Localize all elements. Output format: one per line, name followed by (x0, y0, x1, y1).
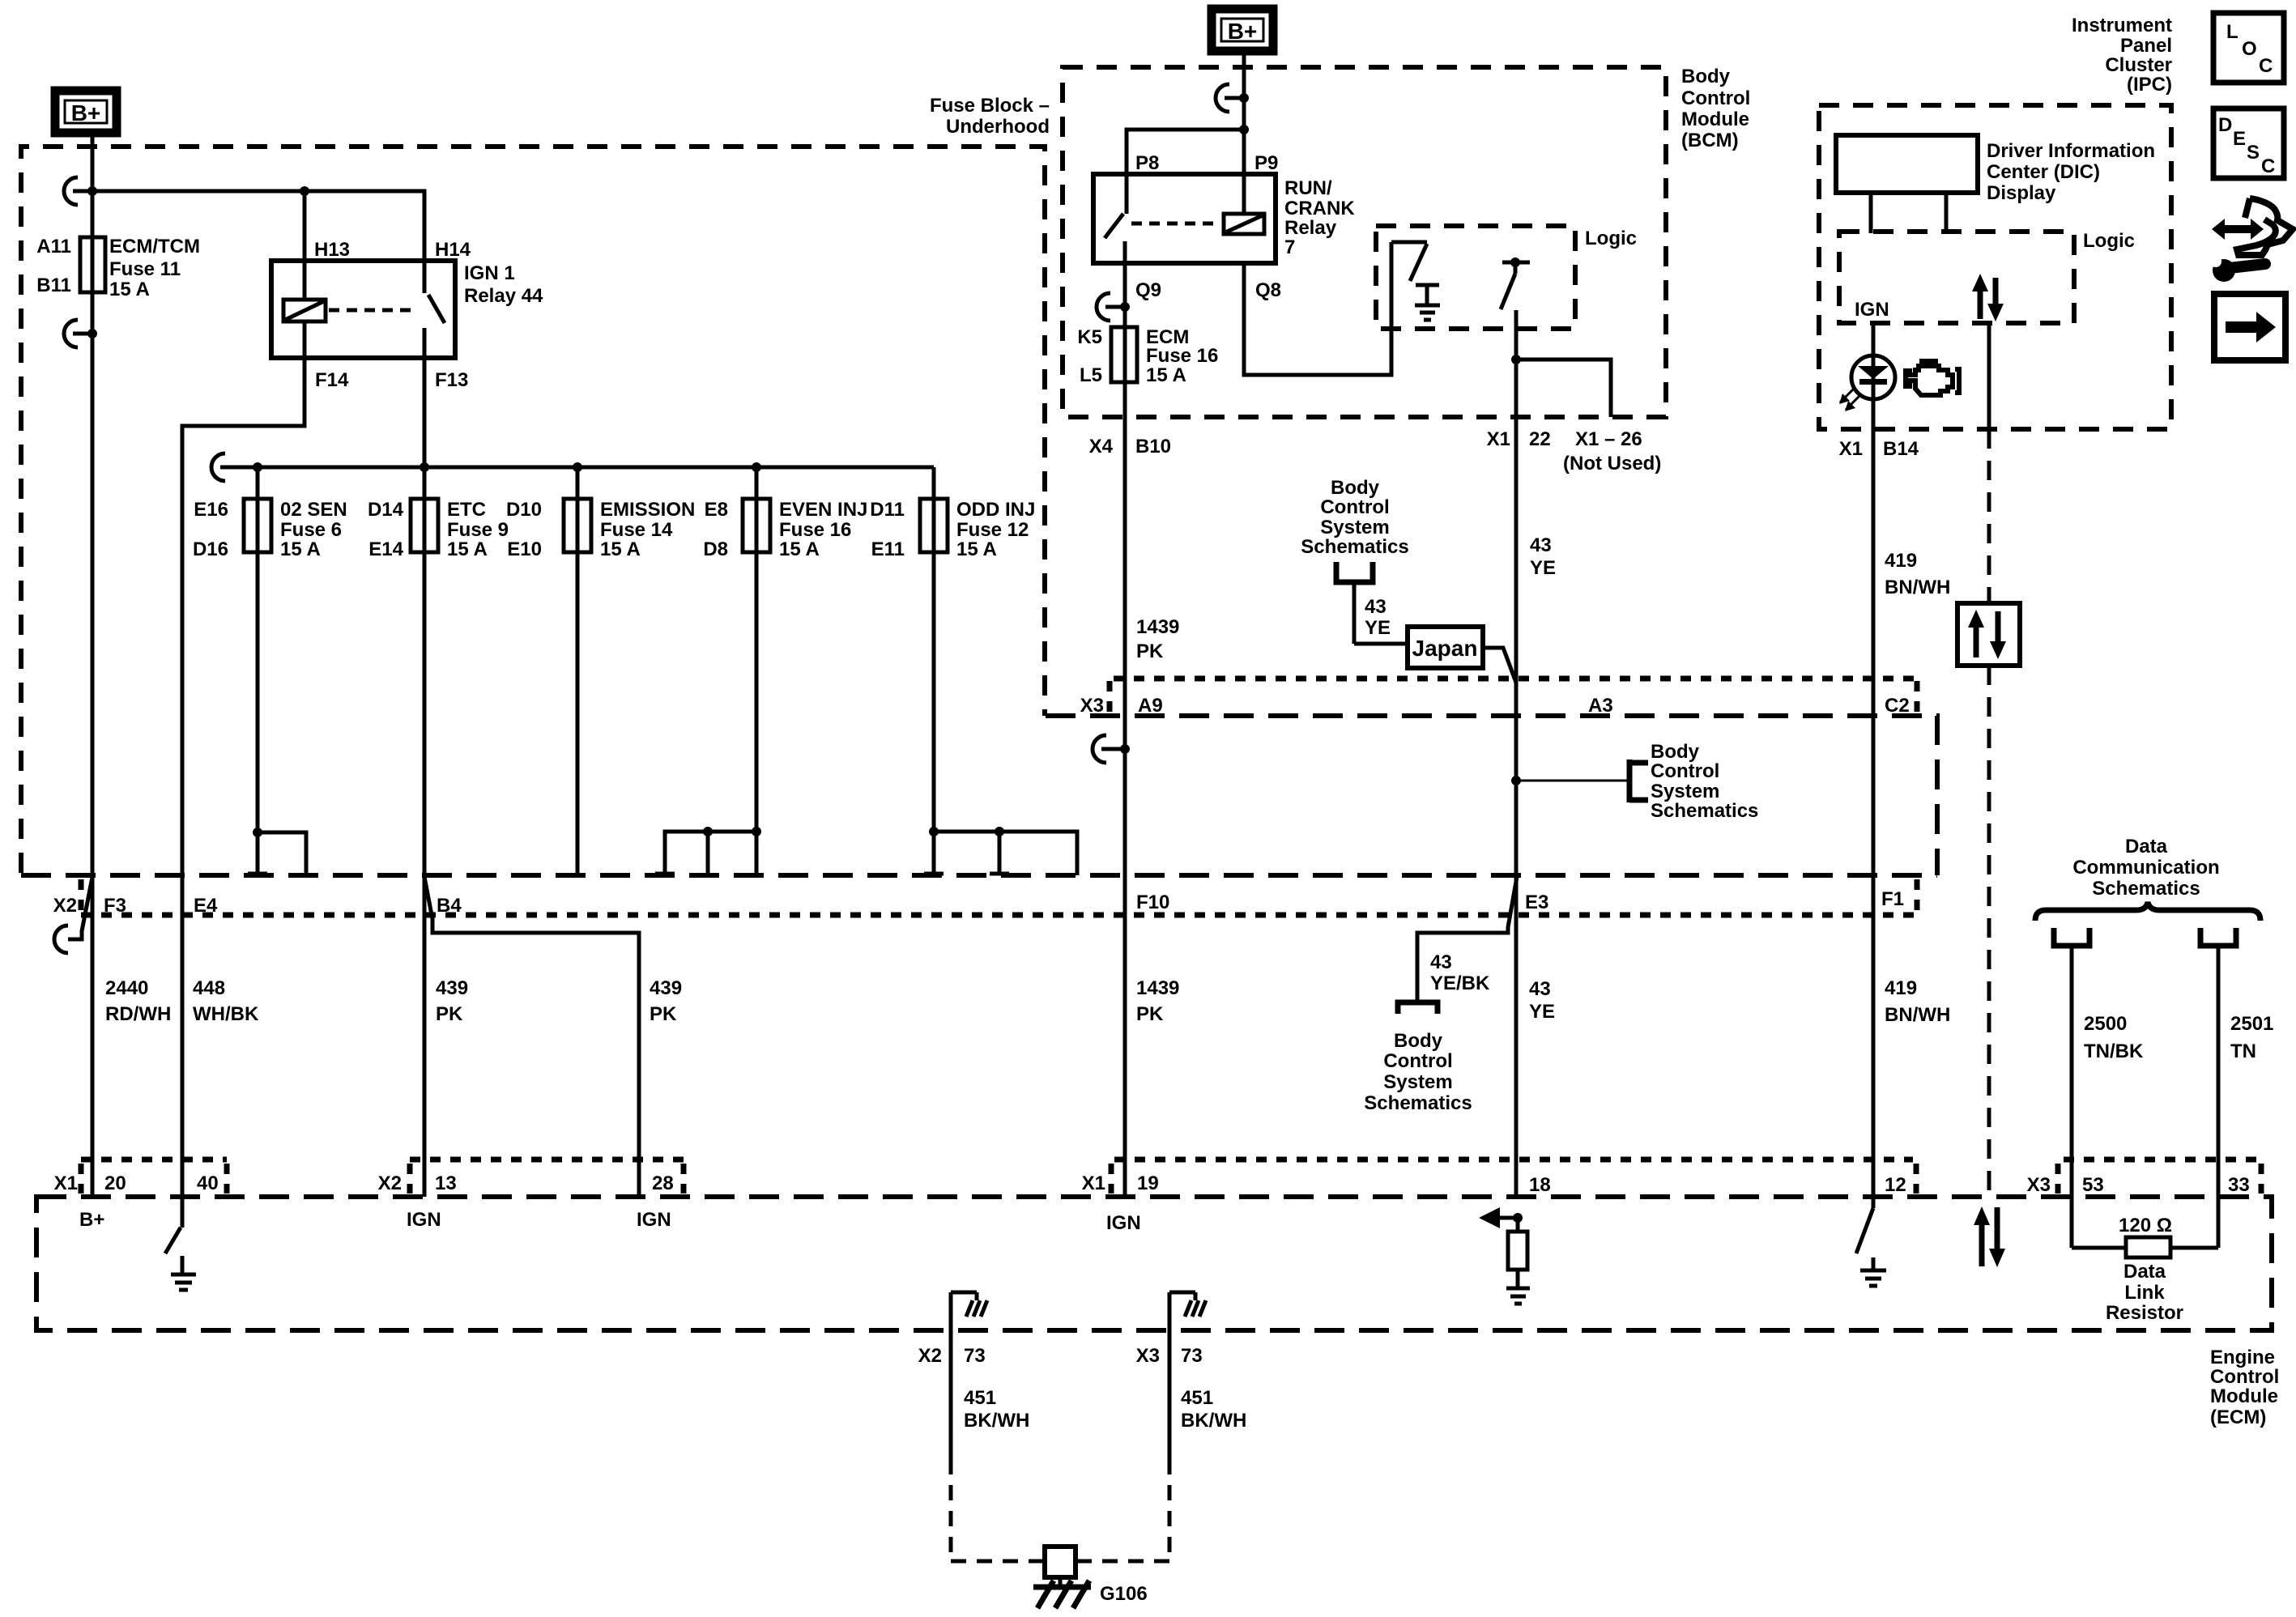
svg-text:PK: PK (436, 1003, 463, 1025)
hook symbol at Q9 junction (1097, 293, 1130, 321)
svg-text:Q9: Q9 (1135, 279, 1161, 301)
svg-text:E10: E10 (507, 538, 542, 560)
svg-text:F14: F14 (315, 369, 349, 391)
label body control system schematics (upper) (1301, 477, 1408, 558)
wire connector row B dashed (fuse block bottom) (21, 873, 1937, 878)
svg-text:F13: F13 (435, 369, 468, 391)
svg-text:120 Ω: 120 Ω (2119, 1215, 2172, 1236)
wire connector row A dotted (BCM X3 face) (1110, 679, 1917, 714)
svg-text:RD/WH: RD/WH (105, 1003, 171, 1025)
BCM dashed box (1063, 67, 1666, 417)
svg-text:Resistor: Resistor (2106, 1302, 2183, 1324)
label fuse 11 pins A11 B11 (36, 236, 71, 296)
svg-text:22: 22 (1529, 428, 1551, 450)
svg-text:B+: B+ (71, 100, 101, 126)
svg-text:Fuse 16: Fuse 16 (1146, 345, 1218, 367)
svg-text:X1 – 26: X1 – 26 (1575, 428, 1642, 450)
node B+ junction (87, 186, 97, 196)
label row B pins X2 F3 E4 B4 F10 E3 F1 (53, 888, 1904, 917)
wire IGN feed 419 to ECM pin 12 (1872, 323, 1876, 1197)
ECM pin 12 internal switch (1856, 1197, 1873, 1269)
svg-text:02 SEN: 02 SEN (280, 499, 347, 521)
svg-text:13: 13 (435, 1172, 457, 1194)
svg-text:Fuse Block –: Fuse Block – (930, 95, 1050, 117)
svg-text:Module: Module (2210, 1385, 2278, 1407)
svg-text:X4: X4 (1089, 436, 1114, 457)
label fuse 14 (506, 499, 695, 560)
label fuse 11 value (109, 236, 200, 300)
label Driver Information Center (DIC) Display (1987, 140, 2155, 204)
wire B+ feed vertical (to ECM pin 20) (91, 134, 95, 1197)
LED indicator (MIL) (1851, 355, 1895, 399)
svg-text:F10: F10 (1136, 891, 1169, 913)
hook symbol at bus start (211, 453, 240, 481)
label Body Control Module (BCM) (1681, 66, 1750, 151)
svg-text:D10: D10 (506, 499, 542, 521)
svg-text:Fuse 6: Fuse 6 (280, 519, 342, 541)
IPC dashed box (1819, 105, 2171, 429)
svg-text:43: 43 (1530, 534, 1552, 556)
icon box LOC (2213, 13, 2284, 83)
label circuit 2500 TN/BK (2084, 1013, 2144, 1062)
svg-text:YE: YE (1365, 617, 1391, 639)
svg-text:Control: Control (1681, 87, 1750, 109)
label fuse 16 (703, 499, 867, 560)
bracket body control schematics (right) (1629, 760, 1648, 802)
svg-text:System: System (1383, 1071, 1452, 1093)
node bus junctions (253, 462, 761, 472)
wire connector row B dotted (81, 879, 1917, 915)
svg-text:C: C (2259, 55, 2273, 77)
label data communication schematics (2072, 836, 2219, 900)
svg-text:15 A: 15 A (280, 538, 321, 560)
wire E3 takeoff 43 YE/BK (1417, 877, 1517, 1001)
svg-text:Body: Body (1331, 477, 1380, 499)
svg-text:Control: Control (2210, 1366, 2279, 1388)
wire fuse drops from bus (0, 0, 1, 1)
svg-text:15 A: 15 A (109, 279, 150, 300)
svg-text:419: 419 (1885, 977, 1917, 999)
svg-text:X1: X1 (1487, 428, 1510, 450)
svg-text:D14: D14 (368, 499, 404, 521)
svg-text:E8: E8 (705, 499, 728, 521)
svg-text:E16: E16 (194, 499, 228, 521)
icon diagnostic arrows and wrench (2210, 198, 2293, 282)
svg-text:Display: Display (1987, 182, 2056, 204)
wire splice to ground (1059, 1577, 1063, 1587)
svg-text:(BCM): (BCM) (1681, 130, 1739, 151)
svg-text:Body: Body (1681, 66, 1731, 87)
label G106 (1100, 1583, 1148, 1605)
svg-text:Body: Body (1394, 1030, 1443, 1052)
ground G106 symbol (1033, 1581, 1091, 1608)
label circuit 451 BK/WH (left) (964, 1387, 1029, 1432)
engine icon (1906, 361, 1959, 395)
wire fuse 14 output (576, 467, 580, 875)
relay K44 coil-switch link (329, 309, 417, 313)
svg-text:40: 40 (197, 1172, 219, 1194)
serial data arrows (IPC logic) (1972, 274, 2004, 321)
node H13 branch (300, 186, 309, 196)
svg-text:439: 439 (650, 977, 682, 999)
node A3 splice to body control schematics (1511, 776, 1521, 785)
relay 7 coil (1224, 214, 1264, 234)
svg-text:Fuse 12: Fuse 12 (956, 519, 1029, 541)
svg-text:Logic: Logic (2083, 230, 2135, 252)
wire F13 to fuse bus (423, 358, 427, 467)
IPC logic dashed box (1839, 232, 2074, 323)
svg-text:Relay 44: Relay 44 (464, 285, 543, 307)
label circuit 43 YE (Japan branch) (1365, 596, 1391, 639)
svg-text:X1: X1 (1082, 1172, 1105, 1194)
svg-text:53: 53 (2082, 1174, 2104, 1196)
svg-text:73: 73 (1181, 1345, 1203, 1367)
wire ground pin X2-73 (949, 1292, 953, 1459)
svg-text:TN/BK: TN/BK (2084, 1040, 2144, 1062)
svg-text:Body: Body (1651, 741, 1700, 763)
svg-text:ECM/TCM: ECM/TCM (109, 236, 200, 257)
fuse F14 EMISSION (564, 499, 591, 552)
wire fuse 6 stub to connector (258, 832, 306, 875)
svg-text:RUN/: RUN/ (1284, 177, 1332, 199)
wire fuse 16 output (755, 467, 759, 875)
icon box arrow (2214, 294, 2285, 360)
wire ground harness dashed to splice (951, 1459, 1169, 1561)
wire P8 branch (1127, 130, 1244, 174)
label relay 7 pins (1135, 152, 1281, 301)
label circuit 1439 PK upper (1136, 616, 1179, 662)
svg-text:28: 28 (652, 1172, 674, 1194)
svg-text:7: 7 (1284, 236, 1295, 258)
svg-text:D16: D16 (193, 538, 228, 560)
svg-text:B14: B14 (1883, 438, 1919, 460)
node fuse 12 branch (929, 827, 1004, 836)
icon box DESC (2213, 109, 2284, 178)
svg-text:(ECM): (ECM) (2210, 1406, 2266, 1428)
label circuit 451 BK/WH (right) (1181, 1387, 1246, 1432)
svg-text:H13: H13 (314, 239, 350, 261)
label circuit 2501 TN (2230, 1013, 2273, 1062)
svg-text:1439: 1439 (1136, 977, 1179, 999)
ECM internal ground (X2-73) (951, 1292, 987, 1317)
svg-text:BK/WH: BK/WH (1181, 1410, 1246, 1432)
label connector X1 B14 (1839, 438, 1919, 460)
ECM pin 18 internal arrow (1479, 1207, 1523, 1228)
brace data communication (2035, 902, 2260, 921)
svg-text:X1: X1 (1839, 438, 1863, 460)
hook symbol on BCM B+ wire (1216, 84, 1249, 112)
svg-text:E11: E11 (871, 538, 905, 560)
BCM logic output switch (1501, 257, 1530, 309)
label row A pins X3 A9 A3 C2 (1080, 695, 1910, 717)
fuse block underhood dashed box (21, 147, 1045, 873)
svg-text:X3: X3 (1080, 695, 1104, 717)
svg-text:BN/WH: BN/WH (1885, 577, 1950, 598)
ECM internal ground (X3-73) (1169, 1292, 1206, 1317)
svg-text:A9: A9 (1138, 695, 1163, 717)
svg-text:73: 73 (964, 1345, 986, 1367)
label fuse 9 (368, 499, 509, 560)
svg-text:Fuse 14: Fuse 14 (600, 519, 673, 541)
relay K44 coil (283, 300, 326, 321)
fuse F9 ETC (411, 499, 438, 552)
wire B10 output to ECM pin 19 (1123, 327, 1127, 1197)
svg-text:EMISSION: EMISSION (600, 499, 695, 521)
svg-text:15 A: 15 A (779, 538, 820, 560)
label connector X3 73 (1136, 1345, 1203, 1367)
wire fuse 16 branch (655, 832, 756, 875)
label connector X1 22 and X1-26 (1487, 428, 1662, 474)
wire serial data to ECM (1987, 666, 1991, 1197)
svg-text:WH/BK: WH/BK (193, 1003, 259, 1025)
svg-text:Q8: Q8 (1255, 279, 1281, 301)
fuse F16 ECM (BCM) (1111, 327, 1137, 382)
wire fuse bus (240, 466, 934, 470)
resistor (ECM pin 18 pull) (1508, 1218, 1527, 1287)
wire serial data from IPC logic (1987, 323, 1991, 603)
label circuit 439 PK (pin 13) (436, 977, 468, 1025)
fuse F16 EVEN INJ (743, 499, 770, 552)
fuse F6 02 SEN (244, 499, 271, 552)
svg-text:X3: X3 (1136, 1345, 1160, 1367)
svg-text:B11: B11 (36, 274, 71, 296)
ground (ECM pin 18) (1506, 1288, 1530, 1304)
svg-text:P9: P9 (1254, 152, 1278, 174)
label circuit 2440 RD/WH (105, 977, 171, 1025)
hook symbol at B+ junction (64, 177, 91, 205)
label circuit 1439 PK lower (1136, 977, 1179, 1025)
svg-text:ETC: ETC (447, 499, 486, 521)
label Instrument Panel Cluster (IPC) (2072, 15, 2172, 96)
svg-text:43: 43 (1529, 978, 1551, 1000)
svg-text:IGN 1: IGN 1 (464, 262, 515, 284)
svg-text:PK: PK (650, 1003, 677, 1025)
svg-text:419: 419 (1885, 550, 1917, 572)
svg-text:43: 43 (1365, 596, 1387, 618)
svg-text:YE: YE (1529, 1001, 1555, 1023)
svg-text:Schematics: Schematics (1651, 800, 1758, 822)
svg-text:Data: Data (2125, 836, 2168, 857)
wire H13 coil feed (303, 191, 307, 300)
wire Q8 to logic (1244, 242, 1391, 375)
svg-text:G106: G106 (1100, 1583, 1148, 1605)
svg-text:System: System (1320, 517, 1389, 538)
B+ power symbol (top left) (55, 91, 117, 133)
svg-text:BK/WH: BK/WH (964, 1410, 1029, 1432)
svg-text:Data: Data (2123, 1261, 2166, 1283)
svg-text:Logic: Logic (1585, 228, 1637, 249)
svg-text:448: 448 (193, 977, 225, 999)
label Logic (IPC) (2083, 230, 2135, 252)
wire B+ to run/crank relay coil (1242, 49, 1246, 215)
svg-text:YE: YE (1530, 557, 1556, 579)
wire F3 splice takeoff with hook (54, 877, 92, 953)
label ECM pin functions (79, 1209, 1141, 1234)
svg-text:Fuse 11: Fuse 11 (109, 258, 181, 280)
svg-text:EVEN INJ: EVEN INJ (779, 499, 867, 521)
label Engine Control Module (ECM) (2210, 1347, 2279, 1428)
svg-text:Schematics: Schematics (1301, 536, 1408, 558)
svg-text:L5: L5 (1080, 364, 1102, 386)
svg-text:33: 33 (2228, 1174, 2250, 1196)
label fuse 12 (870, 499, 1035, 560)
svg-text:A11: A11 (36, 236, 71, 257)
label ECM pins (54, 1172, 2250, 1196)
wire fuse 9 output to pin 13 (423, 467, 427, 1197)
svg-text:D11: D11 (870, 499, 905, 521)
svg-text:Underhood: Underhood (946, 116, 1050, 138)
svg-text:B10: B10 (1135, 436, 1171, 457)
ground (BCM logic) (1415, 305, 1440, 320)
svg-text:(IPC): (IPC) (2127, 74, 2172, 96)
relay 7 coil-switch link (1131, 222, 1220, 226)
hook symbol on B+ wire lower (64, 320, 97, 347)
svg-text:2501: 2501 (2230, 1013, 2273, 1035)
svg-text:F3: F3 (104, 895, 126, 917)
svg-text:15 A: 15 A (600, 538, 641, 560)
svg-text:Fuse 16: Fuse 16 (779, 519, 851, 541)
svg-text:E4: E4 (194, 895, 218, 917)
svg-text:System: System (1651, 781, 1719, 802)
serial data arrows (ECM) (1974, 1206, 2005, 1267)
label circuit 43 YE upper (1530, 534, 1556, 579)
wire Q9 to fuse 16 (1123, 263, 1127, 327)
svg-text:Cluster: Cluster (2105, 54, 2172, 76)
wire connector row A dashed (underhood boundary) (1046, 716, 1937, 875)
svg-text:E3: E3 (1525, 891, 1548, 913)
svg-text:D: D (2218, 114, 2232, 136)
DIC display box (1836, 135, 1978, 233)
node fuse 6 output split (253, 828, 262, 837)
svg-text:IGN: IGN (1855, 299, 1889, 321)
svg-text:Schematics: Schematics (1364, 1092, 1472, 1114)
ECM dashed box (36, 1197, 2272, 1330)
label Data Link Resistor (2106, 1261, 2183, 1324)
svg-text:18: 18 (1529, 1174, 1551, 1196)
svg-text:D8: D8 (703, 538, 728, 560)
svg-text:Center (DIC): Center (DIC) (1987, 161, 2100, 183)
svg-text:Control: Control (1320, 496, 1389, 518)
svg-text:451: 451 (964, 1387, 996, 1409)
svg-text:Japan: Japan (1412, 636, 1478, 661)
label body control system schematics (bottom) (1364, 1030, 1472, 1114)
svg-text:YE/BK: YE/BK (1430, 972, 1490, 994)
svg-text:B+: B+ (1228, 19, 1258, 44)
label IGN (1855, 299, 1889, 321)
svg-text:Panel: Panel (2120, 35, 2172, 57)
svg-text:1439: 1439 (1136, 616, 1179, 638)
B+ power symbol (BCM feed) (1212, 9, 1273, 51)
svg-text:X1: X1 (54, 1172, 78, 1194)
data link resistor 120 ohm (2072, 1197, 2218, 1257)
svg-text:Communication: Communication (2072, 857, 2219, 879)
wire B4 takeoff to pin 28 (424, 877, 639, 1197)
relay RUN/CRANK Relay 7 box (1093, 174, 1276, 263)
label RUN/CRANK Relay 7 (1284, 177, 1355, 258)
svg-text:15 A: 15 A (447, 538, 488, 560)
serial data arrow box (1957, 603, 2020, 666)
svg-text:15 A: 15 A (1146, 364, 1186, 386)
svg-text:ODD INJ: ODD INJ (956, 499, 1035, 521)
label fuse 6 (193, 499, 347, 560)
ECM dotted pin separators (81, 1164, 2261, 1194)
svg-text:X3: X3 (2027, 1174, 2051, 1196)
svg-text:P8: P8 (1135, 152, 1159, 174)
relay K44 IGN 1 box (271, 261, 455, 358)
off-page symbol body control schematics (bottom) (1398, 1002, 1438, 1014)
ECM pin 40 internal switch (165, 1197, 182, 1273)
svg-text:PK: PK (1136, 1003, 1164, 1025)
wire ground pin X3-73 (1168, 1292, 1172, 1459)
svg-text:2440: 2440 (105, 977, 148, 999)
wire fuse 12 branch (934, 832, 1077, 875)
svg-text:A3: A3 (1588, 695, 1613, 717)
svg-text:12: 12 (1885, 1174, 1906, 1196)
wire 43 YE output to ECM pin 18 (1514, 310, 1519, 1197)
svg-text:E14: E14 (368, 538, 403, 560)
label relay 44 pins (314, 239, 471, 391)
svg-text:B4: B4 (437, 895, 462, 917)
svg-text:Driver Information: Driver Information (1987, 140, 2155, 162)
svg-text:Fuse 9: Fuse 9 (447, 519, 509, 541)
label 120 ohm (2119, 1215, 2172, 1236)
svg-text:PK: PK (1136, 640, 1164, 662)
svg-text:BN/WH: BN/WH (1885, 1004, 1950, 1026)
ECM dotted connector line (81, 1157, 2261, 1163)
off-page symbol body control schematics (Japan) (1336, 562, 1373, 644)
svg-text:20: 20 (104, 1172, 126, 1194)
label circuit 43 YE/BK (1430, 951, 1490, 994)
svg-text:F1: F1 (1881, 888, 1904, 910)
label Fuse Block Underhood (930, 95, 1050, 138)
svg-text:Link: Link (2124, 1282, 2165, 1304)
svg-text:451: 451 (1181, 1387, 1213, 1409)
wire X1-26 not used stub (1516, 360, 1611, 417)
svg-text:Control: Control (1651, 760, 1719, 782)
off-page symbol serial data 2501 (2200, 928, 2236, 1197)
label circuit 43 YE lower (1529, 978, 1555, 1023)
svg-text:CRANK: CRANK (1284, 198, 1355, 219)
svg-text:19: 19 (1137, 1172, 1159, 1194)
svg-text:X2: X2 (918, 1345, 942, 1367)
wire fuse 12 output (924, 467, 944, 875)
LED emission arrows (1839, 388, 1860, 411)
svg-text:C: C (2261, 155, 2275, 177)
svg-text:Relay: Relay (1284, 217, 1337, 239)
svg-text:IGN: IGN (1106, 1212, 1141, 1234)
svg-text:Engine: Engine (2210, 1347, 2275, 1368)
off-page symbol serial data 2500 (2054, 928, 2089, 1197)
svg-text:439: 439 (436, 977, 468, 999)
node fuse 16 branch (703, 827, 761, 836)
BCM logic dashed box (1376, 226, 1575, 329)
label circuit 448 WH/BK (193, 977, 259, 1025)
svg-text:C2: C2 (1885, 695, 1910, 717)
wire Japan output joining 43 YE (1483, 648, 1516, 683)
svg-text:2500: 2500 (2084, 1013, 2127, 1035)
fuse F12 ODD INJ (920, 499, 948, 552)
svg-text:Schematics: Schematics (2092, 878, 2200, 900)
wire branch to IGN1 relay (92, 191, 424, 261)
label IGN 1 Relay 44 (464, 262, 543, 307)
svg-text:TN: TN (2230, 1040, 2256, 1062)
svg-text:IGN: IGN (637, 1209, 671, 1231)
ground (ECM pin 12) (1860, 1270, 1886, 1286)
relay K44 switch (424, 261, 445, 358)
svg-text:Module: Module (1681, 109, 1749, 130)
svg-text:IGN: IGN (407, 1209, 441, 1231)
label circuit 419 BN/WH upper (1885, 550, 1950, 598)
